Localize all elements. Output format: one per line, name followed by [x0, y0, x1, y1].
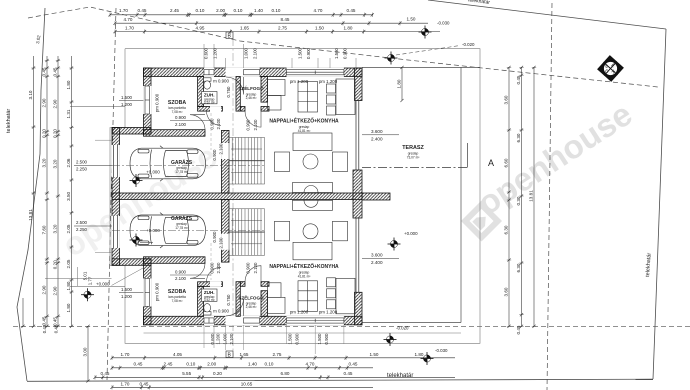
svg-text:1.500: 1.500 — [298, 47, 303, 59]
dimension column left short — [21, 298, 25, 328]
dim 1.80 terrace top — [397, 66, 404, 102]
svg-text:3.50: 3.50 — [66, 191, 71, 200]
terrace pier arm — [362, 193, 390, 200]
garage door gap top — [112, 145, 120, 177]
svg-text:6.60: 6.60 — [504, 158, 509, 167]
svg-text:0.20: 0.20 — [53, 260, 58, 269]
svg-text:1.200: 1.200 — [216, 333, 221, 345]
dimension column left 1 — [31, 56, 35, 328]
survey marker top -0.020 — [385, 52, 398, 65]
wall center top — [222, 130, 230, 193]
svg-text:0.900: 0.900 — [212, 231, 217, 243]
svg-text:pm 1.200: pm 1.200 — [290, 79, 309, 84]
svg-text:3.20: 3.20 — [42, 158, 47, 167]
window frames top wall — [204, 70, 344, 324]
svg-text:NAPPALI+ÉTKEZŐ+KONYHA: NAPPALI+ÉTKEZŐ+KONYHA — [269, 117, 339, 125]
room label szoba bottom — [168, 270, 187, 304]
szelfogo pier bottom — [261, 282, 269, 287]
terrace door dim bottom 3.600/2.400 — [362, 253, 399, 266]
svg-text:0.900: 0.900 — [295, 333, 300, 345]
sofa set bottom — [275, 200, 348, 259]
svg-text:0.45: 0.45 — [42, 316, 47, 325]
svg-text:0.900: 0.900 — [175, 270, 187, 275]
svg-text:0.900: 0.900 — [246, 262, 251, 274]
svg-text:7.60: 7.60 — [42, 225, 47, 234]
dashed sloping line top — [28, 7, 658, 87]
svg-text:2.75: 2.75 — [278, 25, 287, 30]
svg-text:2,46 m²: 2,46 m² — [246, 305, 257, 309]
survey marker left — [81, 288, 94, 301]
plot boundary top right — [428, 0, 666, 29]
svg-text:3.60: 3.60 — [504, 287, 509, 296]
svg-text:0.750: 0.750 — [226, 294, 231, 306]
survey marker garage top — [130, 174, 143, 187]
dashed line bottom continuation — [13, 325, 690, 327]
terrace glass door bottom — [355, 218, 357, 292]
svg-text:1.500: 1.500 — [121, 95, 133, 100]
plot boundary right — [653, 29, 666, 379]
svg-text:1.40: 1.40 — [254, 8, 263, 13]
szoba window left bottom — [143, 278, 151, 306]
svg-text:3.600: 3.600 — [371, 253, 383, 258]
svg-text:2.100: 2.100 — [253, 262, 258, 274]
svg-text:SZÉLFOGÓ: SZÉLFOGÓ — [238, 294, 264, 301]
survey marker bottom -0.030 — [421, 352, 434, 365]
svg-text:2.500: 2.500 — [76, 220, 88, 225]
center wall door gap top — [221, 143, 229, 159]
svg-text:2.100: 2.100 — [175, 276, 187, 281]
survey marker garage bottom — [130, 234, 143, 247]
svg-text:1.70: 1.70 — [121, 381, 130, 386]
zuh door bottom — [210, 281, 221, 286]
svg-text:2.400: 2.400 — [371, 260, 383, 265]
svg-text:1.50: 1.50 — [370, 352, 379, 357]
svg-text:3,52 m²: 3,52 m² — [204, 101, 215, 105]
svg-text:41,81 m²: 41,81 m² — [298, 275, 311, 279]
svg-text:2.05: 2.05 — [66, 259, 71, 268]
svg-text:8.45: 8.45 — [281, 17, 290, 22]
svg-text:+0.000: +0.000 — [96, 282, 110, 287]
svg-text:2.75: 2.75 — [273, 352, 282, 357]
label B bottom — [226, 351, 233, 358]
svg-text:6.80: 6.80 — [281, 371, 290, 376]
dimension row 3 top — [113, 29, 440, 33]
svg-text:1.77: 1.77 — [88, 276, 93, 285]
svg-text:0.45: 0.45 — [134, 362, 143, 367]
window dim line 1.200 extension bottom — [70, 286, 125, 288]
svg-text:0.45: 0.45 — [101, 371, 110, 376]
room label szelfogo top — [238, 84, 264, 100]
svg-text:1.500: 1.500 — [317, 333, 322, 345]
kitchen window top — [287, 68, 344, 77]
entry sidelight top — [244, 68, 260, 77]
svg-text:0.45: 0.45 — [138, 8, 147, 13]
dimension row 1 bottom — [110, 356, 455, 360]
svg-text:2.100: 2.100 — [253, 47, 258, 59]
svg-text:1.200: 1.200 — [121, 294, 133, 299]
svg-text:0.45: 0.45 — [349, 362, 358, 367]
svg-text:0.45: 0.45 — [42, 67, 47, 76]
stairs bottom unit — [229, 209, 265, 256]
szelfogo door arc top — [245, 111, 261, 127]
section A axis — [362, 143, 468, 168]
dimension column left 5 — [86, 325, 90, 383]
wall szoba left bottom — [144, 259, 152, 325]
wall garage left — [112, 128, 120, 266]
svg-text:0.45: 0.45 — [516, 75, 521, 84]
svg-text:0.45: 0.45 — [53, 317, 58, 326]
garage door dim top 2.500/2.250 — [74, 160, 265, 172]
svg-text:1.000: 1.000 — [223, 333, 228, 345]
svg-text:4.70: 4.70 — [306, 362, 315, 367]
wall szoba-garage bottom — [144, 257, 206, 264]
svg-text:1.31: 1.31 — [66, 109, 71, 118]
svg-text:1.560: 1.560 — [334, 47, 339, 59]
dining table bottom — [327, 278, 356, 314]
svg-text:1.70: 1.70 — [125, 25, 134, 30]
svg-text:NAPPALI+ÉTKEZŐ+KONYHA: NAPPALI+ÉTKEZŐ+KONYHA — [269, 262, 339, 270]
room label nappali top — [269, 79, 339, 133]
szoba window dim bottom 1.500/1.200 — [119, 287, 144, 299]
garage door gap bottom — [112, 216, 120, 248]
front door swing top — [226, 77, 244, 95]
svg-text:pm 0.900: pm 0.900 — [155, 93, 160, 112]
label B top — [226, 32, 233, 39]
svg-text:5.55: 5.55 — [182, 371, 191, 376]
wall bottom outer — [144, 316, 363, 325]
svg-text:2.00: 2.00 — [207, 362, 216, 367]
watermark openhouse main — [465, 95, 638, 237]
svg-text:2,46 m²: 2,46 m² — [246, 96, 257, 100]
svg-text:2.00: 2.00 — [216, 8, 225, 13]
svg-text:GARÁZS: GARÁZS — [171, 159, 193, 166]
plot boundary left (telekhatar) — [17, 8, 45, 381]
wall szelfogo right bottom — [261, 291, 268, 317]
svg-text:0.45: 0.45 — [344, 371, 353, 376]
front door gap top — [226, 68, 244, 77]
terrace door dim top 3.600/2.400 — [362, 129, 399, 142]
wall zuh bottom (top unit) — [198, 107, 223, 112]
setback dashed line vertical left — [107, 8, 116, 380]
svg-text:1.80: 1.80 — [66, 281, 71, 290]
svg-text:3.10: 3.10 — [28, 90, 33, 99]
svg-text:0.900: 0.900 — [212, 149, 217, 161]
svg-text:0.900: 0.900 — [343, 47, 348, 59]
wall szoba-garage top — [144, 130, 206, 137]
extension dashes near zuh — [210, 113, 212, 150]
terrace outline — [362, 66, 480, 68]
room label terasz — [402, 145, 424, 160]
svg-text:0.20: 0.20 — [42, 129, 47, 138]
svg-text:0.600: 0.600 — [210, 333, 215, 345]
svg-text:2.100: 2.100 — [219, 143, 224, 155]
svg-text:6.30: 6.30 — [516, 133, 521, 142]
dimension column right 1 — [507, 66, 511, 328]
svg-text:0.900: 0.900 — [175, 115, 187, 120]
eave outline — [110, 49, 480, 344]
zuh label box top — [202, 92, 218, 104]
svg-text:2.400: 2.400 — [371, 137, 383, 142]
svg-text:0.20: 0.20 — [53, 129, 58, 138]
dimension column right 3 — [532, 66, 536, 328]
svg-text:-0.030: -0.030 — [435, 348, 448, 353]
svg-text:0.30: 0.30 — [516, 196, 521, 205]
svg-text:17,78 m²: 17,78 m² — [175, 226, 188, 230]
svg-text:0.900: 0.900 — [306, 47, 311, 59]
svg-text:2.90: 2.90 — [53, 99, 58, 108]
svg-text:pm 1.200: pm 1.200 — [319, 310, 338, 315]
svg-text:0.10: 0.10 — [234, 8, 243, 13]
szelfogo door arc bottom — [245, 266, 261, 282]
dimension column left 2 — [45, 56, 49, 328]
dimension row 4 bottom — [110, 385, 373, 389]
svg-text:GARÁZS: GARÁZS — [171, 215, 193, 222]
svg-text:telekhatár: telekhatár — [6, 109, 12, 133]
svg-text:pm 1.200: pm 1.200 — [319, 79, 338, 84]
svg-text:2.05: 2.05 — [66, 224, 71, 233]
car top — [130, 146, 206, 181]
svg-text:0.10: 0.10 — [272, 8, 281, 13]
svg-text:17,78 m²: 17,78 m² — [175, 170, 188, 174]
szoba window left top — [143, 86, 151, 114]
szoba door dim labels bottom 0.900/2.100 — [170, 274, 211, 276]
svg-text:2.250: 2.250 — [76, 227, 88, 232]
wall right top — [355, 68, 363, 101]
svg-text:1.70: 1.70 — [119, 8, 128, 13]
driveway edge top — [95, 139, 112, 141]
svg-text:2.90: 2.90 — [42, 98, 47, 107]
wall szelfogo left top — [236, 77, 240, 112]
dimension row 3 bottom — [93, 375, 455, 379]
svg-text:0.45: 0.45 — [54, 324, 59, 333]
svg-text:0.45: 0.45 — [140, 381, 149, 386]
svg-text:1.65: 1.65 — [240, 352, 249, 357]
dimension row 1 top — [108, 13, 374, 17]
garage door dim bottom 2.500/2.250 — [74, 220, 265, 232]
svg-text:1.80: 1.80 — [66, 80, 71, 89]
dimension column left 4 — [69, 56, 73, 328]
svg-text:m 0.900: m 0.900 — [213, 309, 229, 314]
svg-text:2.100: 2.100 — [219, 237, 224, 249]
wall szoba-zuh top — [198, 77, 204, 107]
svg-text:3.60: 3.60 — [504, 95, 509, 104]
kitchen counters top — [268, 80, 318, 113]
svg-text:+0.000: +0.000 — [146, 170, 160, 175]
svg-text:1.500: 1.500 — [288, 333, 293, 345]
toilet bottom — [204, 304, 212, 315]
szoba door arc bottom — [190, 263, 205, 278]
svg-text:0.900: 0.900 — [324, 333, 329, 345]
window gap zuh top — [204, 68, 214, 77]
svg-text:A: A — [488, 158, 494, 168]
svg-text:1.50: 1.50 — [407, 17, 416, 22]
wall szoba left top — [144, 68, 152, 134]
svg-text:0.45: 0.45 — [53, 67, 58, 76]
wall garage bump bottom — [112, 259, 151, 266]
szelfogo sill bottom — [240, 282, 245, 287]
svg-text:1.50: 1.50 — [315, 25, 324, 30]
szelfogo pier top — [261, 107, 269, 112]
svg-text:pm 1.200: pm 1.200 — [290, 310, 309, 315]
section B axis — [232, 38, 234, 356]
svg-text:2.45: 2.45 — [170, 8, 179, 13]
svg-text:1.80: 1.80 — [415, 352, 424, 357]
svg-text:41,81 m²: 41,81 m² — [298, 129, 311, 133]
plot boundary bottom — [27, 379, 653, 381]
compass rose — [597, 55, 624, 82]
svg-text:0.45: 0.45 — [42, 324, 47, 333]
entry apron lines bottom — [45, 267, 144, 286]
svg-text:1.80: 1.80 — [344, 25, 353, 30]
svg-text:4.70: 4.70 — [124, 17, 133, 22]
survey marker bottom -0.020 — [384, 333, 397, 346]
svg-text:SZÉLFOGÓ: SZÉLFOGÓ — [238, 84, 264, 91]
dimension column right 2 — [519, 66, 523, 328]
svg-text:0.10: 0.10 — [196, 8, 205, 13]
svg-text:1.500: 1.500 — [121, 287, 133, 292]
svg-text:0.10: 0.10 — [265, 362, 274, 367]
terrace pier — [353, 170, 362, 218]
svg-text:3.20: 3.20 — [53, 224, 58, 233]
front door swing bottom — [226, 298, 244, 316]
window dim line 1.200 extension top — [70, 105, 125, 107]
szoba window dim top 1.500/1.200 — [119, 95, 144, 107]
svg-text:4.05: 4.05 — [173, 352, 182, 357]
svg-text:0.900: 0.900 — [246, 119, 251, 131]
szoba door arc top — [190, 115, 205, 130]
svg-text:TERASZ: TERASZ — [402, 145, 424, 151]
wall szelfogo left bottom — [236, 282, 240, 317]
svg-text:2.100: 2.100 — [253, 119, 258, 131]
svg-text:+0.000: +0.000 — [404, 231, 418, 236]
svg-text:pm 0.900: pm 0.900 — [155, 282, 160, 301]
svg-text:6.30: 6.30 — [516, 263, 521, 272]
dimension row 2 top — [113, 21, 428, 25]
svg-text:1.80: 1.80 — [66, 303, 71, 312]
svg-text:3.20: 3.20 — [53, 159, 58, 168]
svg-text:2.90: 2.90 — [53, 286, 58, 295]
room label szoba top — [168, 100, 187, 127]
toilet top — [204, 78, 212, 89]
center wall door gap bottom — [221, 234, 229, 250]
svg-text:-0.020: -0.020 — [396, 326, 409, 331]
svg-text:2.250: 2.250 — [76, 167, 88, 172]
svg-text:1.40: 1.40 — [248, 362, 257, 367]
svg-text:0.750: 0.750 — [226, 86, 231, 98]
svg-text:0.20: 0.20 — [213, 371, 222, 376]
wall szelfogo right top — [261, 77, 268, 103]
svg-text:1.65: 1.65 — [240, 25, 249, 30]
dimension row 2 bottom — [110, 366, 373, 370]
bottom wall extension lines — [204, 325, 344, 354]
stairs top unit — [229, 138, 265, 185]
svg-text:2.100: 2.100 — [229, 333, 234, 345]
party wall — [112, 193, 362, 200]
sofa set top — [275, 133, 348, 193]
svg-text:1.200: 1.200 — [213, 47, 218, 59]
svg-text:10.65: 10.65 — [241, 381, 253, 386]
dining table top — [327, 79, 356, 115]
svg-text:0.45: 0.45 — [516, 325, 521, 334]
svg-text:-0.020: -0.020 — [462, 42, 475, 47]
room label garazs top — [146, 159, 192, 175]
svg-text:13.81: 13.81 — [28, 209, 33, 221]
setback dashed line vertical right — [547, 3, 552, 390]
svg-text:0.10: 0.10 — [186, 362, 195, 367]
room label garazs bottom — [146, 215, 192, 233]
svg-text:7,08 m²: 7,08 m² — [172, 110, 183, 114]
svg-text:3.00: 3.00 — [83, 347, 88, 356]
driveway edge bottom — [95, 252, 112, 254]
wall top outer — [144, 68, 363, 77]
svg-text:3,52 m²: 3,52 m² — [204, 298, 215, 302]
svg-text:13.81: 13.81 — [529, 190, 534, 202]
kitchen counters bottom — [268, 281, 318, 314]
szoba door dim labels top 0.900/2.100 — [170, 120, 211, 122]
wall center bottom — [222, 200, 230, 263]
svg-text:2.90: 2.90 — [42, 285, 47, 294]
terrace glass door top — [355, 101, 357, 171]
svg-text:2.100: 2.100 — [216, 118, 221, 130]
room label szelfogo bottom — [238, 294, 264, 310]
svg-text:0.600: 0.600 — [204, 47, 209, 59]
svg-text:2.500: 2.500 — [76, 160, 88, 165]
svg-text:7,08 m²: 7,08 m² — [172, 299, 183, 303]
szelfogo sill top — [240, 107, 245, 112]
svg-text:2.06: 2.06 — [66, 158, 71, 167]
svg-text:2.45: 2.45 — [164, 362, 173, 367]
dimension column left 3 — [56, 56, 60, 328]
svg-text:1.70: 1.70 — [121, 352, 130, 357]
svg-text:2.100: 2.100 — [175, 122, 187, 127]
room label zuh bottom — [204, 290, 230, 314]
svg-text:6.30: 6.30 — [504, 225, 509, 234]
svg-text:4.70: 4.70 — [314, 8, 323, 13]
car bottom — [130, 213, 206, 248]
survey marker top right -0.030 — [419, 26, 432, 39]
zuh door top — [210, 106, 221, 111]
wall zuh top (bottom unit) — [198, 282, 223, 287]
svg-text:3.600: 3.600 — [371, 129, 383, 134]
terasz level marker — [388, 231, 419, 251]
zuh label box bottom — [202, 289, 218, 301]
svg-text:0.45: 0.45 — [347, 8, 356, 13]
svg-text:1.000: 1.000 — [244, 47, 249, 59]
svg-text:73,07 m²: 73,07 m² — [407, 156, 420, 160]
svg-text:telekhatár: telekhatár — [387, 373, 413, 379]
svg-text:1.80: 1.80 — [397, 79, 402, 88]
svg-text:4.95: 4.95 — [196, 25, 205, 30]
room label nappali bottom — [269, 262, 339, 315]
wall right bottom — [355, 292, 363, 325]
room label zuh top — [204, 79, 230, 105]
svg-text:-0.030: -0.030 — [437, 21, 450, 26]
wall garage bump top — [112, 128, 151, 135]
svg-text:m 0.900: m 0.900 — [213, 79, 229, 84]
wall szoba-zuh bottom unit — [198, 286, 204, 316]
